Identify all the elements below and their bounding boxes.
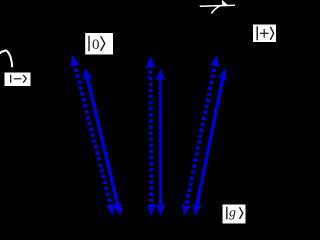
label box |-> [5,73,31,87]
svg-text:0: 0 [92,37,100,53]
white curved decay arrow top right [211,0,228,13]
blue solid double arrow middle (|g> to |0> lower) [156,69,166,217]
label box |+> [253,25,276,43]
white curved arc left edge (arrow toward |-> label) [0,50,12,67]
blue dotted double arrow left (|g> to upper dressed level) [70,55,115,216]
label box |g> [223,205,246,224]
blue solid double arrow right (|g> to |+> lower) [192,69,227,216]
blue dotted double arrow right (|g> to |+> upper) [182,55,219,216]
label box |0> [85,33,113,55]
blue solid double arrow left (|g> to lower dressed level) [83,68,122,216]
white level line top right [200,5,235,6]
svg-text:g: g [229,206,236,221]
blue dotted double arrow middle (|g> to |0> upper) [146,56,156,216]
